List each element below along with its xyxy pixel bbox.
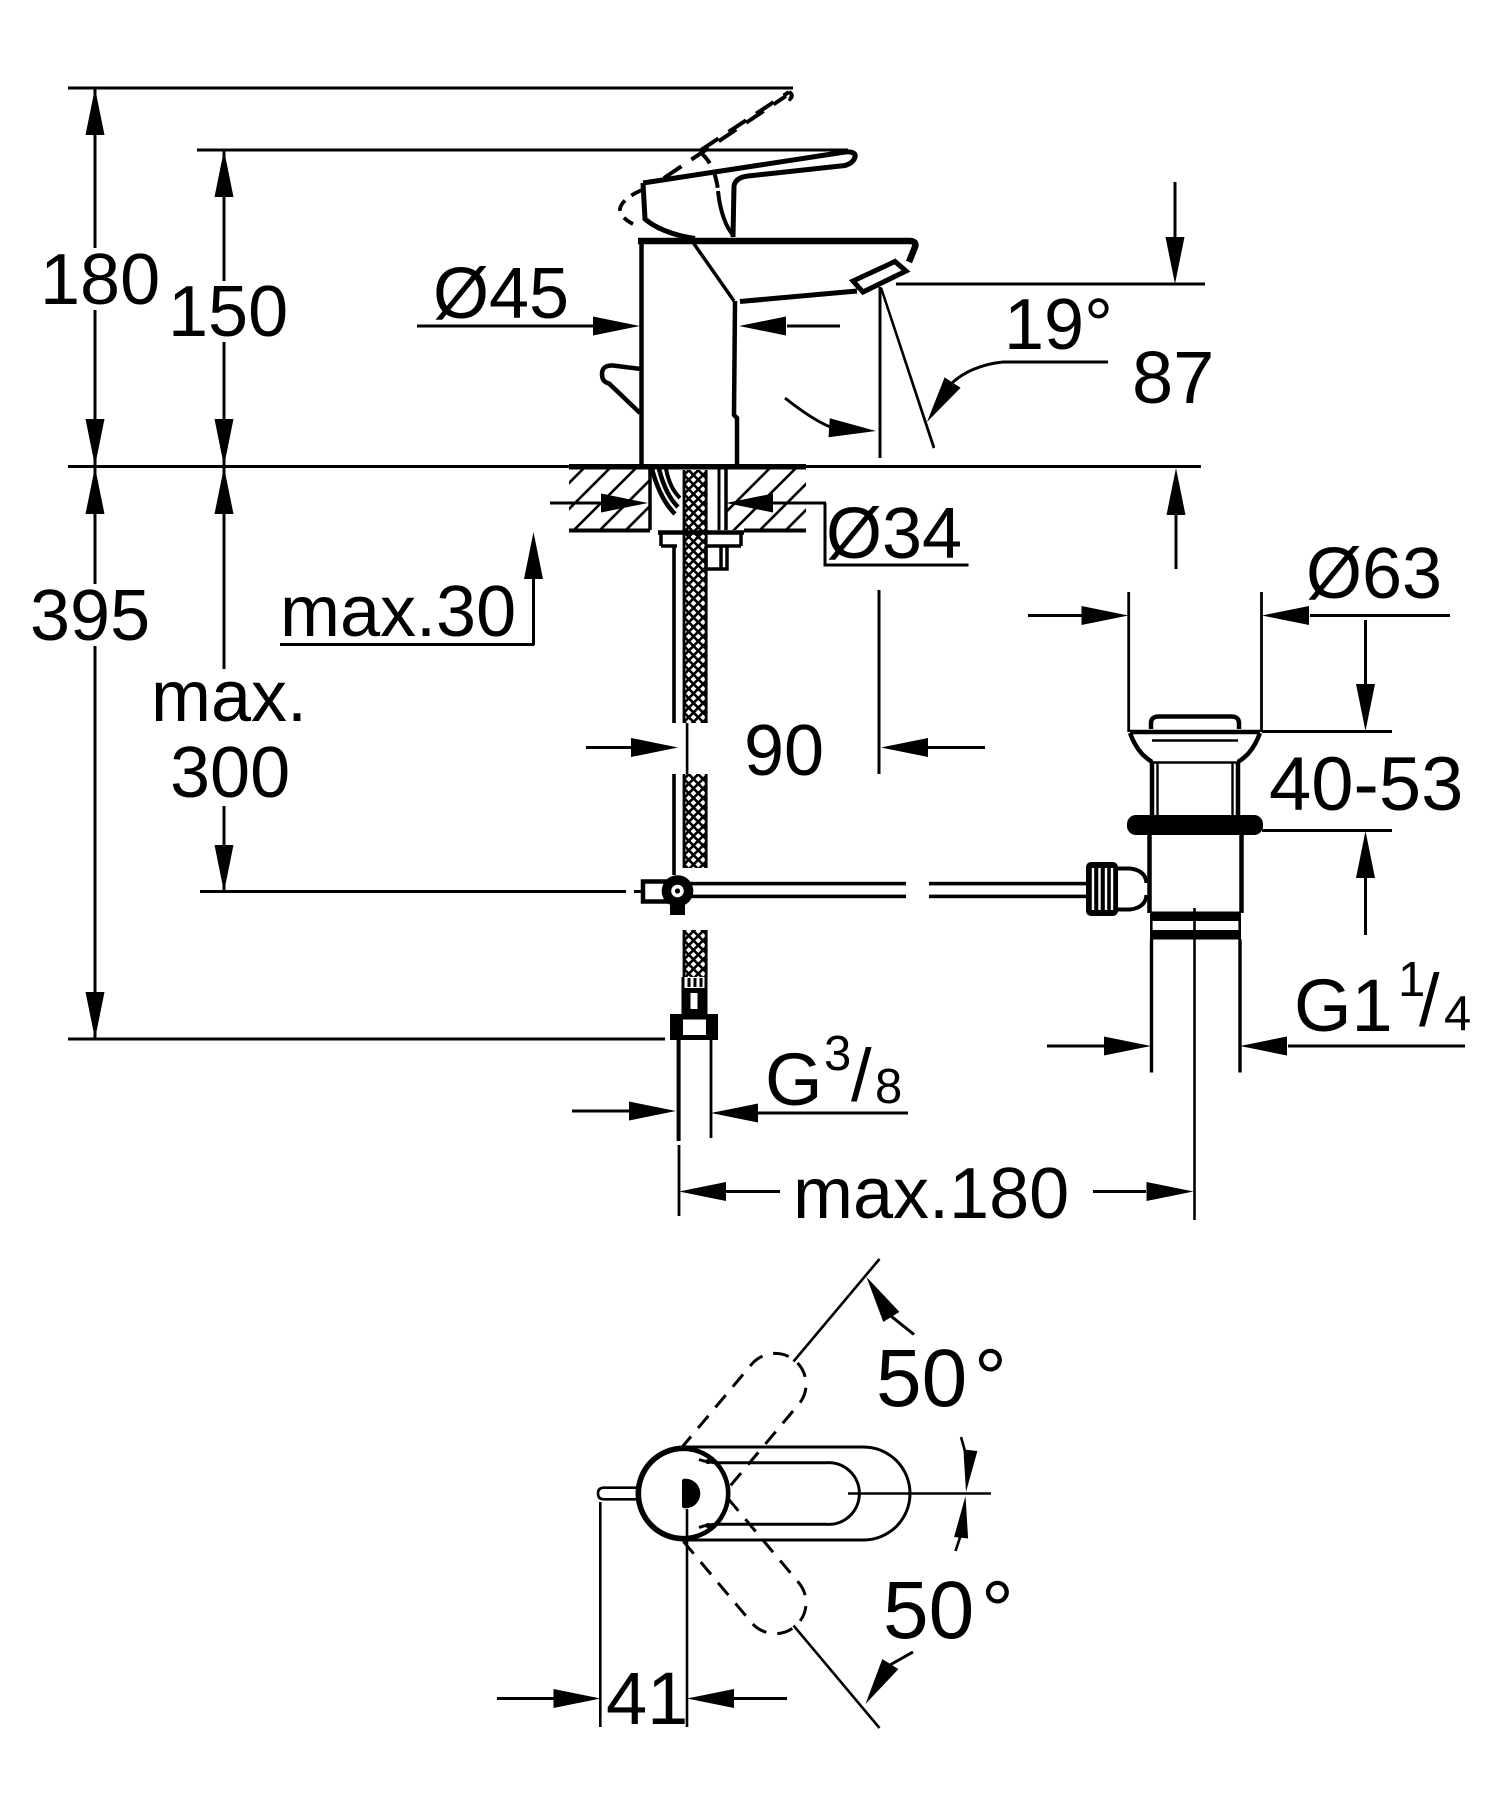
drain centerline: [1193, 908, 1196, 1220]
cartridge mark (top view): [682, 1479, 700, 1509]
svg-text:3: 3: [824, 1027, 851, 1081]
countertop hatching right: [700, 463, 853, 538]
dimension Ø34 arrows and leader: [550, 502, 600, 505]
mounting hole walls: [650, 468, 726, 530]
max.300 bottom reference line: [200, 890, 626, 893]
svg-text:150: 150: [168, 272, 288, 352]
faucet body top (dome): [638, 241, 915, 262]
dimension Ø63 extension lines: [1127, 592, 1130, 732]
drain rubber gasket: [1127, 815, 1263, 835]
svg-text:300: 300: [170, 733, 290, 813]
countertop hatching left: [514, 463, 693, 538]
top view outer capsule: [637, 1447, 910, 1540]
braided hose below pivot: [684, 930, 706, 977]
dimension max.180 arrows: [679, 1182, 726, 1201]
svg-text:19°: 19°: [1004, 285, 1113, 365]
drain flange: [1130, 730, 1260, 735]
svg-text:50 °: 50 °: [876, 1333, 1007, 1424]
spout underside: [740, 291, 857, 302]
mounting nut on shank: [706, 546, 727, 569]
side pop-up knob on body: [602, 365, 641, 413]
395 bottom reference line: [68, 1038, 665, 1041]
drain thread: [1150, 912, 1241, 922]
dimension 87 lower arrow: [1167, 468, 1186, 515]
svg-text:Ø63: Ø63: [1306, 534, 1442, 614]
mounting washer plate: [658, 530, 744, 535]
dashed lever position +50: [681, 1341, 819, 1489]
dashed lever position -50: [681, 1499, 819, 1647]
drain upper body: [1152, 762, 1238, 817]
faucet lever (solid, lowered): [643, 152, 855, 237]
linkage clamp: [643, 882, 666, 902]
svg-text:max.: max.: [151, 657, 307, 737]
aerator tab: [598, 1488, 641, 1500]
dimension 90 arrows: [586, 746, 631, 749]
19 degree slanted line: [880, 288, 936, 449]
angle dimension stubs right: [956, 1437, 966, 1551]
dimension 395 vertical line: [94, 467, 97, 584]
braided hose upper section: [684, 470, 706, 723]
svg-text:max.30: max.30: [280, 572, 516, 652]
horizontal actuating rod: [690, 882, 906, 886]
dimension max.30 leader: [280, 643, 534, 646]
hose connection nut: [670, 1014, 718, 1040]
41 extension lines: [600, 1502, 687, 1727]
faucet body left edge: [639, 241, 644, 466]
svg-text:Ø34: Ø34: [826, 494, 962, 574]
svg-text:4: 4: [1444, 987, 1471, 1041]
svg-text:90: 90: [744, 711, 824, 791]
svg-text:8: 8: [875, 1060, 902, 1114]
svg-text:395: 395: [30, 576, 150, 656]
slab bottom edge: [569, 529, 806, 533]
svg-text:max.180: max.180: [793, 1154, 1069, 1234]
dimension G1 1/4 arrows: [1047, 1045, 1104, 1048]
svg-text:Ø45: Ø45: [433, 254, 569, 334]
top view centerline: [848, 1492, 991, 1495]
dimension 40-53 upper arrow: [1364, 620, 1367, 684]
dimension 180 vertical line: [94, 88, 97, 248]
dimension G 3/8 arrows: [572, 1110, 629, 1113]
angle bowtie arrows: [963, 1450, 977, 1493]
knob neck: [1118, 869, 1147, 910]
drain tailpipe: [1150, 940, 1153, 1073]
lower 50 deg arrow stub: [890, 1652, 913, 1665]
dimension 150 vertical line: [223, 150, 226, 281]
upper 50 deg leader line: [794, 1259, 880, 1362]
top view escutcheon circle: [639, 1449, 728, 1538]
svg-text:G1: G1: [1294, 964, 1393, 1047]
dimension 87 upper arrow: [1174, 182, 1177, 238]
G3/8 threaded tail: [677, 1040, 681, 1141]
ball joint pivot: [662, 875, 694, 907]
reference line (150 level): [197, 149, 848, 152]
svg-text:87: 87: [1132, 336, 1214, 419]
svg-text:41: 41: [606, 1657, 688, 1740]
hoses curving through hole: [652, 469, 675, 514]
dimension 40-53 lower arrow: [1262, 829, 1392, 832]
svg-text:50 °: 50 °: [883, 1565, 1014, 1656]
hose thin line across 90-dim gap: [686, 723, 689, 774]
drain knurled adjuster knob: [1086, 862, 1118, 916]
top reference line (180 level): [68, 87, 793, 90]
drain lower body: [1150, 835, 1242, 913]
countertop reference line: [68, 465, 1201, 468]
pop-up rod vertical: [672, 546, 676, 723]
handle swing arc with arrow: [785, 398, 845, 431]
drain push button: [1151, 717, 1239, 730]
lower 50 deg leader line: [794, 1626, 880, 1729]
hose ferrule: [683, 977, 706, 988]
spout plumb line: [879, 287, 882, 458]
svg-text:G: G: [765, 1038, 823, 1121]
41 dimension lines: [497, 1697, 787, 1700]
87 reference line at spout outlet: [896, 283, 1205, 286]
dimension Ø63 arrows: [1028, 614, 1083, 617]
19 degree leader: [1003, 361, 1108, 364]
lever front curve (cartridge cap): [718, 191, 734, 236]
countertop slab top edge (thick): [569, 464, 806, 470]
svg-text:/: /: [1419, 959, 1440, 1042]
svg-text:40-53: 40-53: [1269, 742, 1463, 827]
dimension max.300 vertical line: [223, 467, 226, 669]
braided hose mid section: [684, 774, 706, 868]
dimension Ø45 arrows: [417, 325, 593, 328]
svg-text:/: /: [851, 1034, 872, 1117]
upper 50 deg arrow stub: [891, 1316, 914, 1334]
faucet lever raised (dashed): [701, 92, 789, 150]
svg-text:180: 180: [40, 240, 160, 320]
body inner diagonal: [692, 241, 734, 301]
spout outlet (aerator): [853, 262, 906, 293]
faucet body right edge below spout: [734, 301, 737, 466]
faucet shank edge in hole: [718, 468, 721, 530]
top view lever outline: [699, 1460, 859, 1528]
max.180 left extension line: [678, 1145, 681, 1216]
